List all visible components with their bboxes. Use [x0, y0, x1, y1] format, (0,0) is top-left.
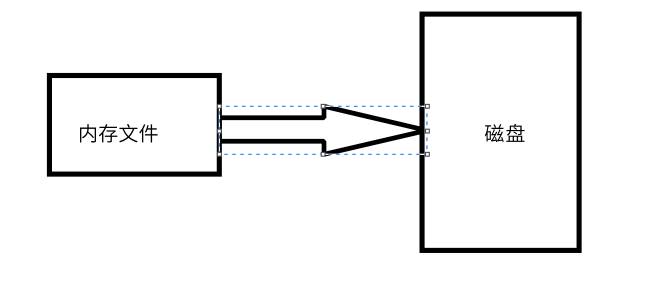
selection marquee white underlay	[219, 106, 427, 154]
selection handles	[218, 104, 430, 156]
handle S	[321, 152, 325, 156]
handle SE	[426, 152, 430, 156]
selection marquee dashed rect	[219, 106, 427, 154]
handle NE	[426, 104, 430, 108]
label 磁盘	[485, 124, 525, 142]
box 磁盘 (disk)	[422, 14, 579, 250]
label 内存文件	[80, 124, 158, 142]
handle N	[321, 104, 325, 108]
box 内存文件 (memory file)	[49, 76, 219, 175]
handle NW	[218, 104, 222, 108]
block arrow (memory file to disk)	[219, 106, 426, 154]
handle E	[426, 129, 430, 133]
handle SW	[218, 152, 222, 156]
handle W	[218, 129, 222, 133]
